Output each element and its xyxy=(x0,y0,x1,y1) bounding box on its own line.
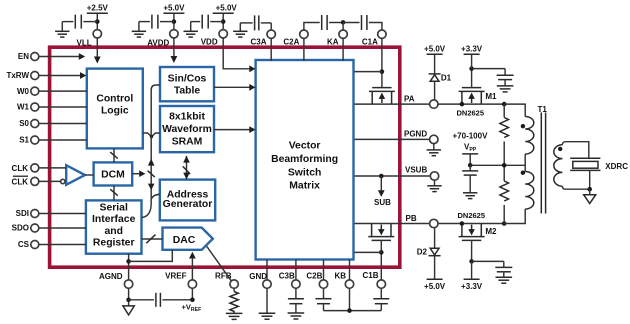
ground at VDD cap xyxy=(184,31,198,37)
pin VREF xyxy=(165,272,196,289)
svg-text:Waveform: Waveform xyxy=(162,124,212,135)
svg-text:DCM: DCM xyxy=(101,170,125,181)
capacitor at C3A xyxy=(240,15,271,31)
svg-text:Matrix: Matrix xyxy=(289,181,320,192)
DCM block xyxy=(94,162,133,185)
svg-text:Vector: Vector xyxy=(289,141,321,152)
+5.0V supply (VDD) xyxy=(213,4,238,30)
wire SDI xyxy=(39,213,86,215)
pin S1 xyxy=(19,136,39,145)
svg-text:EN: EN xyxy=(18,52,29,61)
pin C2A xyxy=(283,30,308,47)
node AGND internal dot xyxy=(126,259,131,264)
ground at VLL cap xyxy=(55,31,69,37)
svg-text:VLL: VLL xyxy=(76,38,91,47)
wire clock trunk to Sin/Cos xyxy=(142,85,161,218)
svg-text:CS: CS xyxy=(18,240,30,249)
pin C1B xyxy=(362,271,385,288)
pin PB xyxy=(406,214,438,228)
supply VPP xyxy=(462,143,478,166)
ground at C3A cap xyxy=(233,31,247,37)
svg-text:+70-100V: +70-100V xyxy=(453,132,489,141)
wire W1 xyxy=(39,106,87,108)
pin AVDD xyxy=(147,30,178,48)
pin EN xyxy=(18,52,39,61)
+5.0V supply at D1 xyxy=(424,45,446,55)
svg-text:+5.0V: +5.0V xyxy=(424,282,446,291)
wire serial interface to AGND xyxy=(128,254,130,280)
pin W0 xyxy=(17,87,39,96)
arrow down on clock trunk xyxy=(148,184,155,191)
capacitor C2A-KA xyxy=(304,15,343,30)
node M2 drain dot xyxy=(469,259,474,264)
node KA top dot xyxy=(341,20,346,25)
svg-text:+2.5V: +2.5V xyxy=(87,4,109,13)
pin SDO xyxy=(12,224,39,233)
svg-text:M1: M1 xyxy=(485,92,497,101)
svg-text:Switch: Switch xyxy=(288,167,322,178)
svg-text:+3.3V: +3.3V xyxy=(461,282,483,291)
node VREF external dot xyxy=(190,298,195,303)
svg-text:C3B: C3B xyxy=(279,272,295,281)
node tap resistor dot xyxy=(502,163,507,168)
capacitor KA-C1A xyxy=(343,15,382,30)
bus slash DCM-serial xyxy=(110,189,118,196)
wire AGND node to DAC xyxy=(129,250,173,262)
node transducer return dot xyxy=(587,187,592,192)
pin C3B xyxy=(279,272,300,289)
wire PB to M2 gate rail xyxy=(438,223,504,225)
wire PB FET to C1B xyxy=(380,240,382,280)
pin CLK xyxy=(12,164,39,173)
svg-text:8x1kbit: 8x1kbit xyxy=(169,112,205,123)
node M1 drain dot xyxy=(469,66,474,71)
DAC block xyxy=(163,228,213,250)
pin TxRW xyxy=(6,71,38,80)
pin CLKB (inverted clock) xyxy=(12,176,39,186)
svg-text:and: and xyxy=(104,226,122,237)
wire CS xyxy=(39,244,86,246)
node hop junction dot xyxy=(150,135,153,138)
ground at GND xyxy=(259,313,276,319)
node C1A junction dot xyxy=(380,69,385,74)
capacitor at VLL xyxy=(62,15,97,32)
arrow SUB xyxy=(374,176,391,207)
capacitor at AVDD xyxy=(139,15,174,32)
wire matrix to PA rail xyxy=(355,103,430,105)
transistor internal high-side FET (PA) xyxy=(369,88,395,105)
ground at PGND xyxy=(433,144,435,150)
pin W1 xyxy=(17,103,39,112)
bus SRAM-address generator xyxy=(183,156,190,180)
wire buffer to DCM xyxy=(85,174,94,176)
wire GND to ground xyxy=(266,288,268,313)
waveform SRAM block xyxy=(160,106,214,152)
wire matrix to GND pin xyxy=(266,260,268,281)
signal ground at transducer xyxy=(584,189,596,203)
transformer T1 secondary xyxy=(554,142,590,190)
svg-text:SDI: SDI xyxy=(16,209,29,218)
svg-text:Control: Control xyxy=(96,94,133,105)
wire control logic to SRAM with hop xyxy=(143,133,160,137)
ground at M2 cap xyxy=(496,277,513,283)
resistor at RFB xyxy=(230,288,238,313)
wire PA to M1 gate rail xyxy=(438,103,504,105)
wire sin/cos to matrix xyxy=(214,84,255,91)
svg-text:Logic: Logic xyxy=(101,106,129,117)
svg-text:AGND: AGND xyxy=(99,272,123,281)
svg-text:Sin/Cos: Sin/Cos xyxy=(168,73,207,84)
svg-text:DN2625: DN2625 xyxy=(457,109,485,118)
wire DAC to RFB diagonal xyxy=(207,246,232,281)
wire matrix to KB pin xyxy=(349,260,351,281)
svg-text:CLK: CLK xyxy=(12,164,29,173)
wire serial to DAC xyxy=(142,238,163,240)
resistor upper damping xyxy=(500,104,509,165)
chip boundary xyxy=(50,47,400,267)
transformer T1 primary xyxy=(504,104,534,223)
wire matrix to PB rail xyxy=(355,223,430,225)
svg-text:VREF: VREF xyxy=(165,272,186,281)
svg-text:SDO: SDO xyxy=(12,224,29,233)
svg-text:D1: D1 xyxy=(441,73,452,82)
svg-text:DN2625: DN2625 xyxy=(458,211,486,220)
node M1 source dot xyxy=(460,102,465,107)
wire clock trunk branch to address generator xyxy=(151,194,160,199)
pin RFB xyxy=(215,272,238,289)
svg-text:S0: S0 xyxy=(19,119,29,128)
node AVDD supply dot xyxy=(172,19,177,24)
svg-text:C2B: C2B xyxy=(306,272,322,281)
wire matrix to C2B pin xyxy=(323,260,325,281)
wire SDO xyxy=(39,227,86,229)
pin SDI xyxy=(16,209,39,218)
svg-text:VSUB: VSUB xyxy=(405,165,427,174)
vector beamforming switch matrix block xyxy=(256,60,354,260)
node AGND external dot xyxy=(126,298,131,303)
capacitor at M2 drain xyxy=(472,261,513,277)
svg-text:C1B: C1B xyxy=(362,271,378,280)
wire TxRW xyxy=(39,72,87,79)
wire S1 xyxy=(39,139,87,141)
wire AVDD into chip xyxy=(171,38,178,63)
pin PGND xyxy=(404,130,438,144)
ground at RFB xyxy=(226,313,243,319)
diode D1 xyxy=(429,54,452,100)
pin S0 xyxy=(19,119,39,128)
node VLL supply dot xyxy=(95,19,100,24)
svg-text:Generator: Generator xyxy=(163,199,213,210)
capacitor at C3B xyxy=(288,288,304,313)
svg-text:C1A: C1A xyxy=(362,38,378,47)
+2.5V supply xyxy=(87,4,109,30)
node M2 gate dot xyxy=(460,221,465,226)
pin VDD xyxy=(201,30,228,47)
pin C2B xyxy=(306,272,327,289)
svg-text:CLK: CLK xyxy=(12,177,29,186)
wire KA into matrix xyxy=(342,38,344,61)
wire C1A down to internal FET drain xyxy=(381,38,383,87)
capacitor at VDD xyxy=(191,15,224,32)
svg-text:+5.0V: +5.0V xyxy=(216,4,238,13)
pin CS xyxy=(18,240,39,249)
wire VSUB xyxy=(355,175,431,177)
signal ground at AGND xyxy=(123,306,134,315)
transformer phasing dot primary top xyxy=(521,124,525,128)
pin VSUB xyxy=(405,165,439,180)
bus slash control-DCM xyxy=(110,152,118,159)
ground at AVDD cap xyxy=(132,31,146,37)
svg-text:PA: PA xyxy=(404,94,415,103)
svg-text:Beamforming: Beamforming xyxy=(271,154,338,165)
+3.3V supply at M2 xyxy=(461,261,483,291)
svg-text:S1: S1 xyxy=(19,136,29,145)
wire W0 xyxy=(39,90,87,92)
ground at VPP cap xyxy=(463,193,477,199)
svg-text:+5.0V: +5.0V xyxy=(424,45,446,54)
svg-text:PGND: PGND xyxy=(404,130,427,139)
svg-text:GND: GND xyxy=(249,272,267,281)
+5.0V supply at D2 xyxy=(424,279,446,291)
pin VLL xyxy=(76,30,101,48)
ground at C3B xyxy=(288,313,305,319)
svg-text:KB: KB xyxy=(335,272,347,281)
resistor lower damping xyxy=(500,165,509,223)
svg-text:SUB: SUB xyxy=(374,198,391,207)
svg-text:+5.0V: +5.0V xyxy=(163,4,185,13)
capacitor at M1 drain xyxy=(472,69,514,86)
wire CLK to buffer xyxy=(39,167,66,169)
bus slash serial-DAC xyxy=(146,235,155,244)
pin C1A xyxy=(362,30,386,47)
svg-text:TxRW: TxRW xyxy=(6,71,29,80)
pin C3A xyxy=(250,30,275,47)
wire DCM output arrow xyxy=(132,170,145,177)
pin AGND xyxy=(99,272,133,288)
svg-text:T1: T1 xyxy=(538,105,548,114)
wire DCM to serial interface xyxy=(113,186,115,201)
pin PA xyxy=(404,94,438,108)
wire bottom rail C2B-KB-C1B xyxy=(324,310,382,312)
svg-text:C2A: C2A xyxy=(283,38,299,47)
pin KB xyxy=(335,272,354,289)
transistor internal low-side FET (PB) xyxy=(368,224,394,241)
svg-text:VDD: VDD xyxy=(201,38,218,47)
wire S0 xyxy=(39,123,87,125)
wire control logic to DCM xyxy=(113,148,115,162)
svg-text:W0: W0 xyxy=(17,87,30,96)
node SUB dot xyxy=(379,174,384,179)
wire matrix to C3B pin xyxy=(295,260,297,281)
pin GND xyxy=(249,272,271,288)
node KB rail dot xyxy=(347,308,352,313)
wire CLKB to buffer bubble xyxy=(39,180,61,182)
transformer core xyxy=(541,113,545,214)
capacitor at VPP xyxy=(462,165,478,193)
wire VREF arrow into DAC xyxy=(189,252,196,280)
node PB FET drain dot xyxy=(379,250,384,255)
transformer phasing dot primary bottom xyxy=(521,171,525,175)
wire VDD to matrix xyxy=(223,38,255,72)
capacitor at C1B xyxy=(373,288,389,310)
svg-text:AVDD: AVDD xyxy=(147,38,169,47)
svg-text:Serial: Serial xyxy=(100,203,128,214)
wire C3A into matrix xyxy=(270,38,272,61)
svg-text:Interface: Interface xyxy=(92,214,136,225)
transducer XDRC xyxy=(570,158,628,189)
bus slash on clock trunk xyxy=(148,171,155,177)
svg-text:M2: M2 xyxy=(485,227,497,236)
wire EN xyxy=(39,53,85,60)
address generator block xyxy=(160,180,215,221)
wire VREF lower xyxy=(191,288,193,300)
+5.0V supply (AVDD) xyxy=(163,4,185,30)
wire AGND to ground xyxy=(128,288,130,306)
arrow up on clock trunk xyxy=(148,159,155,166)
svg-text:XDRC: XDRC xyxy=(605,162,628,171)
diode D2 xyxy=(417,228,441,280)
svg-text:PB: PB xyxy=(406,214,417,223)
wire VPP to transformer tap xyxy=(470,164,525,166)
transistor M2 DN2625 xyxy=(458,211,498,261)
wire matrix to C1A node xyxy=(355,71,382,73)
control logic block U-CTRL xyxy=(87,69,143,149)
svg-text:+3.3V: +3.3V xyxy=(461,45,483,54)
wire matrix to PB FET node xyxy=(355,251,382,253)
transistor M1 DN2625 xyxy=(457,69,498,118)
sin/cos table block xyxy=(160,67,214,101)
ground at VSUB xyxy=(434,180,436,186)
capacitor AGND-VREF xyxy=(129,293,193,307)
wire C2A into matrix xyxy=(303,38,305,61)
serial interface block xyxy=(86,200,142,253)
wire SRAM to matrix xyxy=(214,126,255,133)
node VDD supply dot xyxy=(221,19,226,24)
wire PGND xyxy=(355,138,430,140)
svg-text:Register: Register xyxy=(93,237,135,248)
transformer phasing dot secondary xyxy=(558,147,562,151)
clock input buffer xyxy=(61,165,85,185)
ground at M1 cap xyxy=(497,86,514,92)
svg-text:Table: Table xyxy=(174,85,201,96)
svg-text:C3A: C3A xyxy=(250,38,266,47)
wire KB to bottom rail xyxy=(349,288,351,310)
svg-text:W1: W1 xyxy=(17,103,30,112)
+3.3V supply at M1 xyxy=(461,45,483,69)
node VPP dot xyxy=(468,163,473,168)
svg-text:D2: D2 xyxy=(417,247,428,256)
svg-text:KA: KA xyxy=(327,38,339,47)
pin KA xyxy=(327,22,347,46)
svg-text:SRAM: SRAM xyxy=(172,137,203,148)
node PA rail dot xyxy=(502,102,507,107)
node PB rail dot xyxy=(502,221,507,226)
svg-text:DAC: DAC xyxy=(173,235,196,246)
wire VLL into chip xyxy=(94,38,101,64)
capacitor at C2B xyxy=(316,288,332,310)
